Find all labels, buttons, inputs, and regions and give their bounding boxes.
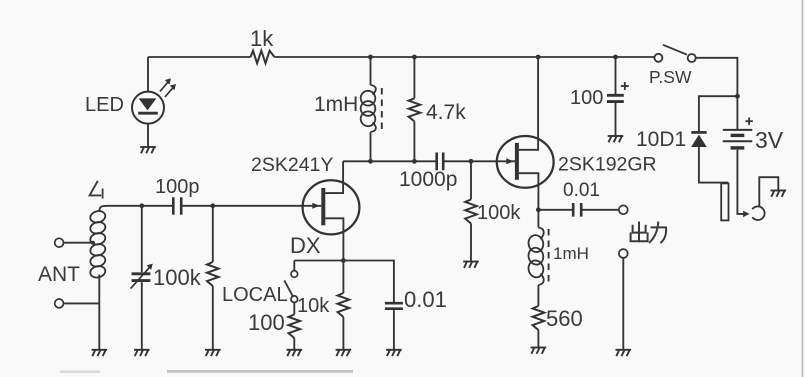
ground below LED (140, 146, 156, 148)
junction battery top node (735, 94, 740, 99)
LED light arrow 2 (165, 86, 174, 97)
junction 4.7k-midwire (412, 159, 417, 164)
wire FET1 drain corner to 1000p (343, 160, 437, 162)
scan edge right (802, 0, 804, 377)
inductor L1 antenna coil (89, 210, 106, 225)
transistor Q1 2SK241Y circle (303, 180, 360, 234)
junction rail-4.7k (412, 55, 417, 60)
plus sign battery (745, 120, 752, 122)
svg-text:560: 560 (546, 306, 583, 331)
svg-text:LOCAL: LOCAL (222, 284, 288, 306)
inductor L 1mH first (371, 85, 376, 94)
FET2 source lead (519, 173, 539, 210)
wire source node to 1mH2 (537, 210, 539, 228)
wire 1000p to FET2 gate (443, 160, 515, 162)
junction 1mH-midwire (368, 159, 373, 164)
wire tap to 100k second (470, 161, 472, 199)
LED light arrow 1 (160, 81, 169, 92)
wire 1mH to mid wire (370, 132, 372, 161)
jack tip contact arc (752, 206, 764, 220)
junction varcap tap (139, 203, 144, 208)
LED cathode bar (138, 112, 158, 115)
wire rail to 100uF (615, 57, 617, 94)
ground below output terminal (616, 349, 632, 351)
wire source row right to cap (343, 261, 394, 303)
svg-text:1mH: 1mH (553, 244, 589, 263)
switch P.SW left contact (654, 54, 662, 62)
FET2 drain lead (519, 57, 538, 150)
core dash 1mH second (548, 229, 550, 282)
resistor R 10k (338, 293, 350, 317)
wire P.SW to corner (696, 58, 738, 96)
wire top supply rail right segment (275, 56, 655, 58)
LED D1 circle (132, 92, 164, 124)
FET1 channel bar (321, 188, 325, 225)
FET2 channel bar (515, 143, 519, 180)
wire lower terminal to ground (622, 258, 624, 350)
output terminal lower (619, 249, 628, 258)
resistor R 4.7k (409, 98, 421, 121)
wire ANT lower to coil ground line (64, 302, 100, 304)
wire battery to jack tip arrow (737, 150, 743, 214)
capacitor C 1000p (435, 153, 438, 171)
ground below antenna coil (92, 349, 108, 351)
wire 1mH2 to 560 (537, 285, 539, 306)
wire 0.01 out to terminal (581, 209, 619, 211)
svg-text:0.01: 0.01 (563, 180, 600, 201)
jack sleeve contact (721, 183, 728, 220)
junction rail-1mH (368, 55, 373, 60)
resistor R 560 (533, 306, 545, 330)
junction 100k1 tap (210, 203, 215, 208)
capacitor C 100p (172, 197, 175, 214)
FET1 gate lead (181, 205, 321, 207)
junction rail-100uF (613, 55, 618, 60)
wire gate row left hook (99, 206, 107, 212)
diode 10D1 triangle (691, 135, 707, 147)
ANT terminal lower (55, 299, 64, 308)
wire LED branch from rail (147, 57, 149, 92)
wire LED to ground (147, 124, 149, 147)
label output kanji 力 (650, 223, 666, 243)
wire 100k first to ground (212, 286, 214, 350)
wire tap to 100k first (212, 206, 214, 262)
capacitor C 0.01 output (572, 203, 575, 217)
svg-text:10k: 10k (297, 295, 330, 317)
wire source node to 0.01 out (538, 209, 573, 211)
label L1 coil name (90, 181, 102, 196)
wire varcap to ground (141, 282, 143, 350)
wire node to diode (699, 96, 738, 131)
wire 4.7k to mid wire (413, 121, 415, 161)
ground below 100uF (608, 135, 624, 137)
wire source row left (294, 260, 343, 262)
svg-text:1k: 1k (250, 26, 274, 51)
transistor Q2 2SK192GR circle (497, 136, 554, 188)
svg-text:100: 100 (570, 87, 603, 109)
wire 0.01 bypass to ground (393, 310, 395, 350)
wire 10k to ground (342, 317, 344, 350)
ground below 560 (531, 347, 547, 349)
scan streak left (60, 371, 100, 374)
switch P.SW right contact (688, 54, 696, 62)
wire coil bottom to ground (98, 275, 100, 350)
FET1 gate arrow (312, 203, 320, 209)
wire down to DX contact (293, 261, 295, 271)
switch lever (284, 280, 293, 296)
ground below 0.01 bypass (386, 349, 402, 351)
svg-text:DX: DX (290, 233, 321, 258)
jack tip arrow (743, 211, 750, 217)
wire ANT tap (64, 242, 93, 244)
wire rail to 1mH choke (370, 57, 372, 85)
capacitor C 0.01 bypass (385, 302, 403, 305)
switch P.SW lever (663, 45, 687, 55)
svg-text:10D1: 10D1 (636, 128, 686, 151)
wire 100 local to ground (293, 338, 295, 350)
battery plate long bottom (723, 140, 753, 142)
scan streak center (167, 370, 353, 373)
variable capacitor arrow (131, 266, 151, 288)
battery plate short 1 (731, 134, 745, 137)
svg-text:1000p: 1000p (399, 168, 457, 191)
LED triangle (139, 98, 157, 110)
svg-text:100k: 100k (153, 265, 202, 290)
FET1 source lead (325, 218, 343, 260)
svg-text:0.01: 0.01 (404, 287, 447, 312)
resistor R 100 local (289, 315, 301, 339)
resistor R 1k (251, 51, 275, 64)
svg-text:4.7k: 4.7k (426, 101, 466, 124)
core dash 1mH first (381, 88, 383, 129)
ground below 100 local (287, 349, 303, 351)
wire source to 10k (342, 261, 344, 294)
inductor L 1mH second (538, 228, 543, 240)
svg-text:3V: 3V (755, 127, 784, 153)
svg-text:100p: 100p (155, 176, 200, 198)
ground below varcap (134, 349, 150, 351)
label output kanji 出 (631, 223, 648, 242)
wire LOCAL contact to 100 (293, 303, 295, 315)
ground at jack (771, 190, 787, 192)
svg-text:100k: 100k (477, 202, 521, 224)
wire rail to 4.7k (413, 57, 415, 98)
variable capacitor CV plates (132, 272, 151, 275)
junction 100k2 tap (469, 159, 474, 164)
svg-text:LED: LED (85, 94, 124, 116)
ground below 100k first (205, 349, 221, 351)
svg-text:ANT: ANT (38, 263, 80, 286)
ground below 100k second (463, 261, 479, 263)
ground below 10k (336, 349, 352, 351)
resistor R 100k second (465, 199, 477, 223)
wire 100k second to ground (470, 224, 472, 262)
wire 100uF to ground (615, 103, 617, 136)
capacitor C 100 electrolytic (607, 94, 624, 97)
battery plate short 2 (731, 146, 745, 149)
switch DX contact (291, 271, 298, 278)
svg-text:2SK192GR: 2SK192GR (558, 154, 657, 176)
junction FET2 source node (536, 207, 541, 212)
svg-text:100: 100 (248, 310, 285, 335)
wire jack tip to ground (759, 177, 778, 207)
switch LOCAL contact (291, 296, 298, 303)
ANT terminal upper (55, 238, 64, 247)
wire node to battery (736, 96, 738, 130)
wire diode to jack sleeve (699, 147, 728, 183)
resistor R 100k first (207, 262, 219, 286)
gate arrow FET2 (506, 158, 514, 164)
svg-text:2SK241Y: 2SK241Y (251, 154, 333, 176)
FET1 drain lead (325, 161, 343, 193)
output terminal upper (619, 205, 628, 214)
svg-text:P.SW: P.SW (649, 67, 692, 87)
wire 560 to ground (537, 330, 539, 348)
battery plate long top (723, 129, 753, 131)
diode 10D1 cathode bar (691, 131, 706, 134)
junction source row (341, 258, 346, 263)
plus sign 100uF (621, 85, 629, 87)
junction rail-FET2 drain (536, 55, 541, 60)
wire top supply rail left segment (148, 56, 251, 58)
svg-text:1mH: 1mH (314, 93, 358, 116)
wire tap to varcap (141, 206, 143, 272)
